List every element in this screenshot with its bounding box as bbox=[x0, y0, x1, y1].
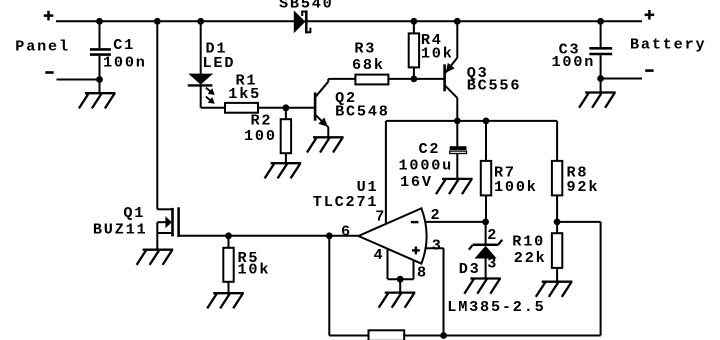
svg-text:1k5: 1k5 bbox=[228, 85, 261, 103]
svg-text:Battery: Battery bbox=[630, 36, 706, 54]
svg-text:6: 6 bbox=[341, 222, 352, 240]
svg-text:68k: 68k bbox=[352, 56, 385, 74]
svg-text:8: 8 bbox=[417, 263, 428, 281]
svg-text:R3: R3 bbox=[354, 39, 376, 57]
svg-text:100n: 100n bbox=[103, 54, 147, 72]
svg-text:100n: 100n bbox=[552, 53, 596, 71]
svg-text:100: 100 bbox=[244, 127, 277, 145]
svg-text:3: 3 bbox=[432, 236, 443, 254]
svg-text:R10: R10 bbox=[512, 233, 545, 251]
svg-text:Q1: Q1 bbox=[123, 204, 145, 222]
svg-text:BC548: BC548 bbox=[335, 102, 390, 120]
svg-text:22k: 22k bbox=[514, 249, 547, 267]
svg-text:BUZ11: BUZ11 bbox=[93, 220, 148, 238]
svg-text:SB540: SB540 bbox=[279, 0, 334, 12]
svg-text:10k: 10k bbox=[421, 45, 454, 63]
svg-text:3: 3 bbox=[487, 254, 498, 272]
svg-text:16V: 16V bbox=[400, 173, 433, 191]
svg-text:Panel: Panel bbox=[15, 37, 70, 55]
svg-text:D3: D3 bbox=[459, 260, 481, 278]
svg-text:92k: 92k bbox=[567, 178, 600, 196]
svg-text:BC556: BC556 bbox=[467, 77, 522, 95]
svg-text:LED: LED bbox=[203, 54, 236, 72]
svg-text:TLC271: TLC271 bbox=[313, 193, 378, 211]
svg-text:LM385-2.5: LM385-2.5 bbox=[447, 298, 545, 316]
svg-text:C1: C1 bbox=[113, 36, 135, 54]
svg-text:2: 2 bbox=[487, 226, 498, 244]
svg-text:1000u: 1000u bbox=[399, 156, 454, 174]
svg-text:100k: 100k bbox=[494, 178, 538, 196]
svg-text:4: 4 bbox=[374, 246, 385, 264]
svg-text:10k: 10k bbox=[238, 261, 271, 279]
